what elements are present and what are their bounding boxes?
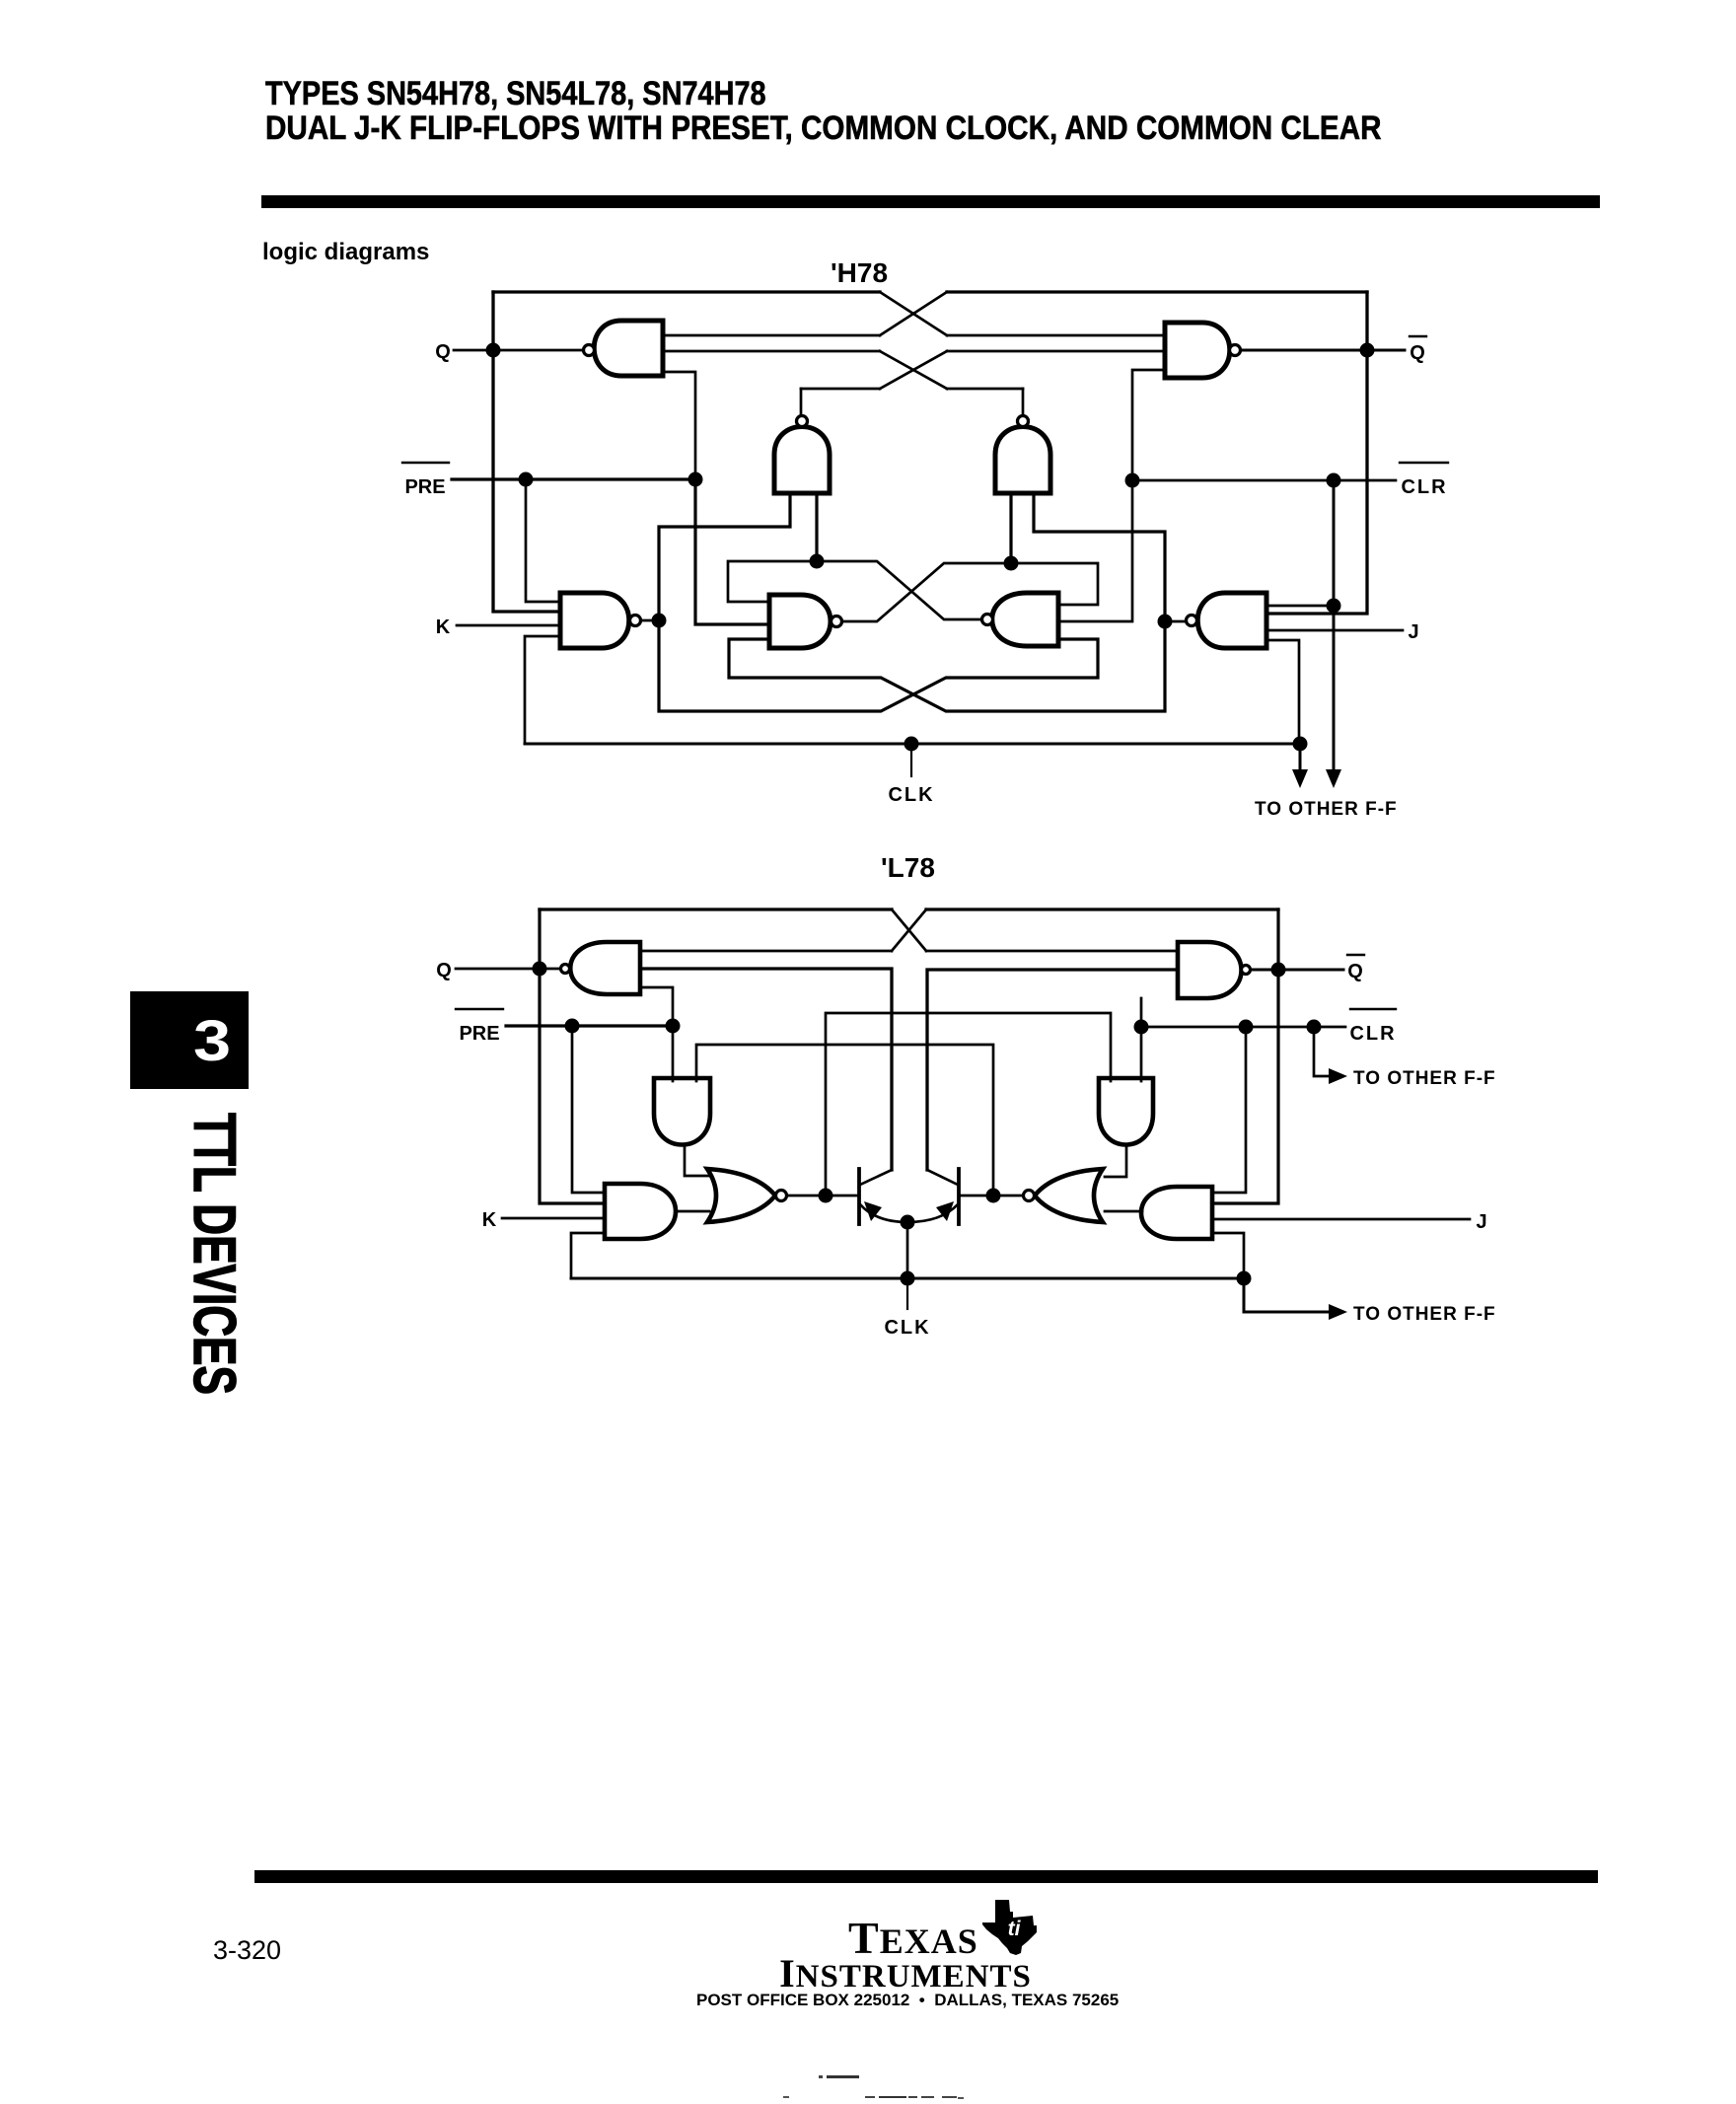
- wire J lead to gate pin 3: [1266, 629, 1403, 632]
- wire gate 2 pin 3 down to CLR and gate U6 pin 2: [1058, 370, 1165, 621]
- wire crossover X2 diagonal down: [880, 351, 947, 389]
- wire gate U5 output cross route to gate U6 pin 1: [842, 563, 1098, 621]
- logic diagrams label: [262, 239, 429, 266]
- junction Qbar node dot: [1360, 343, 1375, 358]
- wire gate 1 pin 3 down to PRE: [640, 987, 673, 1026]
- wire X2 to pulse gate U4 output stub: [947, 388, 1023, 391]
- junction PRE dot B: [688, 472, 703, 487]
- node Q ('H78): [435, 341, 451, 363]
- wire K output up to pulse gate U3 input A: [659, 493, 790, 620]
- transistor left base bar: [857, 1169, 861, 1224]
- wire K gate output lead: [642, 619, 659, 622]
- wire J AND gate output into NOR 2 pin 2: [1105, 1210, 1142, 1213]
- wire J gate output lead: [1165, 620, 1186, 623]
- TI address line: [696, 1991, 1113, 2010]
- header title line 1: [265, 75, 766, 113]
- wire pulse gate U4 input B leg to J output node: [1034, 493, 1165, 621]
- nor gate 2 ('L78 right, faces left): [1024, 1169, 1104, 1222]
- and gate U3 ('L78 left dome, faces up): [654, 1078, 710, 1145]
- junction Qbar node dot ('L78): [1271, 963, 1286, 978]
- wire CLR lead: [1132, 479, 1396, 482]
- 'L78 diagram title: [881, 852, 935, 884]
- junction CLR dot A ('L78): [1134, 1020, 1149, 1035]
- junction CLK label dot ('L78): [901, 1271, 915, 1286]
- wire Q node down left border into K gate pin 2: [493, 350, 560, 612]
- svg-text:J: J: [1408, 621, 1418, 643]
- svg-text:Q: Q: [436, 960, 452, 981]
- wire Qbar net right border down into J gate pin 2: [1266, 292, 1367, 614]
- node K ('L78): [482, 1209, 497, 1231]
- wire gate 1 pin 2 toward crossover X2: [663, 350, 880, 353]
- wire CLK line ('L78): [571, 1277, 1244, 1280]
- nand gate U3 (left pulse gate, faces up): [774, 416, 830, 494]
- node CLR ('H78): [1400, 463, 1448, 498]
- arrow CLK to other F-F: [1292, 769, 1308, 788]
- svg-text:PRE: PRE: [404, 476, 445, 498]
- wire right border down into J gate pin 2 ('L78): [1212, 909, 1278, 1203]
- wire pulse gate U3 output bubble stub: [800, 389, 803, 415]
- nand gate U6 (middle right, faces left): [982, 593, 1059, 646]
- wire crossover X diagonal A ('L78): [892, 909, 926, 951]
- wire gate U5 pin 3 long route from J output: [729, 621, 1165, 711]
- wire J gate pin 1 from CLR: [1266, 605, 1334, 608]
- wire dome gate U4 output into NOR 2 pin 1: [1105, 1144, 1126, 1177]
- wire pulse gate U3 input B leg: [815, 493, 818, 561]
- wire top border left segment ('L78): [540, 907, 892, 910]
- wire dome gate U3 output into NOR 1 pin 1: [685, 1144, 710, 1176]
- nand gate 1 (Q latch, faces left): [584, 321, 664, 376]
- top rule: [261, 195, 1600, 208]
- wire PRE lead ('L78): [506, 1024, 673, 1027]
- wire PRE into dome gate U3 input A ('L78): [672, 1026, 675, 1081]
- wire CLK line ('H78): [525, 743, 1300, 746]
- junction K gate output node: [652, 614, 667, 628]
- wire crossover X2 diagonal up: [880, 351, 947, 389]
- wire crossover to gate 2 pin 1 ('L78): [926, 950, 1178, 953]
- node Qbar ('H78): [1410, 336, 1426, 364]
- node TO OTHER F-F upper ('L78): [1353, 1068, 1496, 1089]
- wire K AND gate output into NOR 1 pin 2: [676, 1210, 709, 1213]
- junction PRE dot A ('L78): [565, 1019, 580, 1034]
- wire K lead to gate pin 3: [457, 624, 560, 627]
- and gate U4 ('L78 right dome, faces up): [1099, 1078, 1153, 1145]
- junction J gate output node: [1158, 615, 1173, 629]
- svg-text:CLK: CLK: [884, 1317, 930, 1339]
- nand gate U5 (middle left, faces right): [769, 595, 842, 648]
- wire crossover X1 diagonal Q net: [880, 292, 947, 335]
- svg-text:TO OTHER F-F: TO OTHER F-F: [1353, 1068, 1496, 1089]
- node PRE ('L78): [456, 1009, 503, 1045]
- junction CLR dot C ('L78): [1307, 1020, 1322, 1035]
- TI texas state logo: [982, 1900, 1037, 1955]
- wire pulse gate U4 input A leg: [1009, 493, 1012, 563]
- wire pulse gate U3 output to X2: [801, 388, 880, 391]
- wire Q net into gate 2 pin 1: [947, 334, 1165, 337]
- TI logo wordmark TEXAS: [848, 1912, 965, 1964]
- scan artifact dash mid-bottom: [819, 2075, 823, 2078]
- arrow right emitter: [936, 1201, 954, 1221]
- wire PRE down to latch gate U5 pin 2: [695, 479, 769, 624]
- section tab black box: [130, 991, 249, 1089]
- node Qbar ('L78): [1347, 955, 1364, 982]
- wire CLK to other flip-flop arrow stem: [1299, 744, 1302, 771]
- junction CLK label dot: [904, 737, 919, 752]
- node Q ('L78): [436, 960, 452, 981]
- wire left transistor emitter curve: [860, 1204, 907, 1222]
- node PRE ('H78): [402, 463, 449, 498]
- wire dome gate U4 input B from CLR: [1140, 998, 1143, 1081]
- nand gate 2 (Qbar latch, faces right): [1165, 323, 1241, 378]
- wire pulse gate U4 output bubble stub: [1022, 389, 1025, 415]
- arrow left emitter: [864, 1201, 882, 1221]
- wire K gate pin 4 down to CLK line ('L78): [571, 1233, 605, 1278]
- transistor right base bar: [957, 1169, 961, 1224]
- wire CLK to other F-F stem ('L78): [1244, 1278, 1332, 1312]
- junction CLR dot A: [1125, 473, 1140, 488]
- svg-text:Q: Q: [1347, 961, 1363, 982]
- wire Q node left border up and down into K gate pin 2: [540, 909, 605, 1203]
- junction left bar line dot: [819, 1189, 833, 1203]
- wire J lead to gate pin 3 ('L78): [1212, 1218, 1470, 1221]
- nor gate 1 ('L78 left, faces right): [707, 1169, 787, 1222]
- junction CLK right dot: [1293, 737, 1308, 752]
- wire NOR 2 output to right transistor base bar: [959, 1195, 1023, 1197]
- wire CLK label stub: [910, 744, 912, 776]
- wire gate 1 pin 2 to left clock transistor collector: [640, 969, 892, 1170]
- junction emitter common dot: [901, 1215, 915, 1230]
- wire gate U6 output cross route to gate U5 pin 1: [728, 561, 981, 619]
- wire Q lead ('L78): [456, 968, 560, 971]
- svg-text:ti: ti: [1008, 1918, 1022, 1940]
- node TO OTHER F-F lower ('L78): [1353, 1304, 1496, 1325]
- svg-text:PRE: PRE: [459, 1023, 499, 1045]
- svg-text:TO OTHER F-F: TO OTHER F-F: [1353, 1304, 1496, 1325]
- junction right bar line dot: [986, 1189, 1001, 1203]
- wire crossover X1 diagonal Qbar net: [880, 292, 947, 335]
- junction CLR dot B ('L78): [1239, 1020, 1254, 1035]
- wire PRE down to K gate pin 1 ('L78): [572, 1026, 605, 1193]
- wire gate 1 pin 3 to PRE: [663, 372, 695, 479]
- wire right transistor collector diagonal: [927, 1170, 958, 1185]
- wire crossover X diagonal B ('L78): [892, 909, 926, 951]
- junction U4 input A dot: [1004, 556, 1019, 571]
- wire CLK label stub ('L78): [906, 1278, 908, 1309]
- junction CLR dot B: [1327, 473, 1341, 488]
- node CLR ('L78): [1349, 1009, 1396, 1045]
- and gate K input ('L78, faces right): [605, 1184, 676, 1239]
- node J ('L78): [1476, 1211, 1486, 1233]
- wire CLR down to J gate pin 1 ('L78): [1212, 1027, 1246, 1193]
- svg-text:CLK: CLK: [888, 784, 934, 806]
- svg-text:CLR: CLR: [1401, 476, 1447, 498]
- wire right transistor emitter curve: [907, 1204, 958, 1222]
- wire left transistor collector diagonal: [860, 1170, 892, 1185]
- wire Qbar output lead ('L78): [1251, 969, 1343, 972]
- node TO OTHER F-F ('H78): [1255, 799, 1398, 820]
- wire Qbar net top horizontal right segment: [947, 290, 1367, 293]
- TI logo wordmark INSTRUMENTS: [773, 1950, 1038, 1996]
- page number 3-320: [213, 1935, 281, 1966]
- wire J gate pin 4 down to CLK line: [1266, 640, 1299, 744]
- junction U3 input B dot: [810, 554, 825, 569]
- wire Q net top horizontal left segment: [493, 290, 880, 293]
- wire Qbar net into gate 1 pin 1: [663, 334, 880, 337]
- section tab number 3: [193, 1008, 231, 1074]
- 'H78 diagram title: [831, 257, 888, 289]
- and gate J input ('L78, faces left): [1141, 1187, 1212, 1239]
- wire gate 1 pin 1 to crossover ('L78): [640, 950, 892, 953]
- wire PRE down to K gate pin 1: [526, 479, 560, 602]
- junction Q node dot: [486, 343, 501, 358]
- arrow CLR to other F-F: [1326, 769, 1341, 788]
- junction PRE dot B ('L78): [666, 1019, 681, 1034]
- svg-text:J: J: [1476, 1211, 1486, 1233]
- header title line 2: [265, 109, 1382, 148]
- wire Q lead to gate 1: [454, 349, 583, 352]
- wire PRE lead: [452, 477, 695, 480]
- wire K lead ('L78): [502, 1217, 605, 1220]
- wire K output down long route to gate U6 pin 3: [659, 620, 1098, 711]
- arrow CLR to other F-F ('L78): [1329, 1068, 1347, 1084]
- wire CLR to other F-F stem ('L78): [1314, 1027, 1332, 1076]
- svg-text:CLR: CLR: [1349, 1023, 1396, 1045]
- junction CLK right dot ('L78): [1237, 1271, 1252, 1286]
- wire Qbar output lead: [1241, 349, 1405, 352]
- wire K gate pin 4 down to CLK line: [525, 636, 560, 744]
- node CLK ('L78): [884, 1317, 930, 1339]
- node K ('H78): [436, 617, 451, 638]
- junction CLR J gate pin 1 dot: [1327, 599, 1341, 614]
- wire emitter common down to CLK: [906, 1222, 909, 1278]
- wire CLR lead ('L78): [1141, 1026, 1345, 1029]
- node J ('H78): [1408, 621, 1418, 643]
- arrow CLK to other F-F ('L78): [1329, 1304, 1347, 1320]
- wire top border right segment ('L78): [926, 907, 1278, 910]
- wire Q node up left border to top: [491, 292, 494, 350]
- svg-text:K: K: [482, 1209, 497, 1231]
- svg-text:Q: Q: [1410, 342, 1425, 364]
- wire X2 to gate 2 pin 2: [947, 350, 1165, 353]
- scan artifact dotted line bottom 2: [942, 2096, 957, 2098]
- wire gate 2 pin 2 to right clock transistor collector: [927, 970, 1178, 1170]
- wire dome gate U3 input B from right bar line: [696, 1045, 993, 1196]
- wire J gate pin 4 down to CLK line ('L78): [1212, 1233, 1244, 1278]
- TTL DEVICES vertical label: [181, 1113, 249, 1395]
- bottom rule: [254, 1870, 1598, 1883]
- svg-text:K: K: [436, 617, 451, 638]
- wire left bar line up to dome gate U4 input A: [826, 1013, 1111, 1196]
- nand gate 1 ('L78 Q latch, faces left): [561, 942, 641, 994]
- scan artifact dotted line bottom: [783, 2096, 789, 2098]
- svg-text:TO OTHER F-F: TO OTHER F-F: [1255, 799, 1398, 820]
- wire CLR vertical down to arrow: [1333, 480, 1336, 770]
- nand gate K input (faces right): [560, 593, 641, 648]
- wire NOR 1 output to left transistor base bar: [787, 1195, 859, 1197]
- junction PRE dot A: [519, 472, 534, 487]
- junction Q node dot ('L78): [533, 962, 547, 977]
- nand gate U4 (right pulse gate, faces up): [995, 416, 1050, 494]
- svg-text:Q: Q: [435, 341, 451, 363]
- nand gate 2 ('L78 Qbar latch, faces right): [1178, 942, 1251, 998]
- node CLK ('H78): [888, 784, 934, 806]
- nand gate J input (faces left): [1187, 593, 1267, 648]
